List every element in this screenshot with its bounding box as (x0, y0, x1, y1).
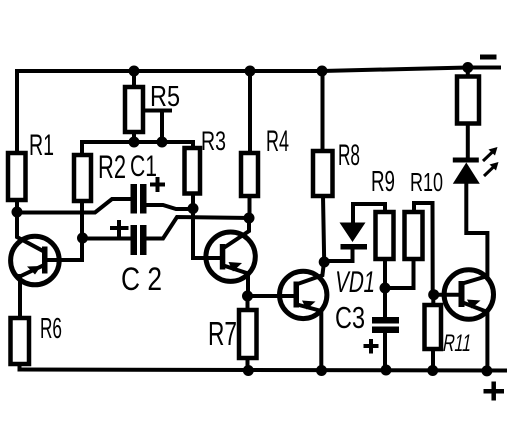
resistor R6 (11, 318, 30, 364)
node R4-C2-Q2 collector junction (244, 213, 255, 224)
wire bias net R2-R5-R3 (82, 142, 193, 155)
LED arrows (483, 147, 499, 176)
resistor R7 (239, 310, 257, 358)
label plus supply (484, 382, 505, 401)
node R1 bottom junction (12, 207, 23, 218)
node Q2 emitter R7 Q3 base (242, 291, 253, 302)
svg-text:C1: C1 (130, 150, 157, 183)
transistor Q2 (206, 218, 255, 296)
node R5 bottom (129, 137, 140, 148)
svg-text:C 2: C 2 (121, 261, 162, 297)
wire R5 wiper tap (143, 111, 170, 143)
wire lamp resistor top lead (466, 68, 470, 77)
wire R5 bottom lead (132, 132, 136, 142)
wire node to Q2 base (193, 209, 220, 259)
transistor Q3 (280, 262, 327, 371)
label C2 plus (110, 220, 129, 237)
node top rail R5 (129, 66, 140, 77)
svg-text:C3: C3 (335, 300, 365, 335)
node top rail R8 (317, 66, 328, 77)
wire C2 right to R4 node (147, 217, 250, 239)
wire R11 leads (431, 295, 435, 370)
wire R8 top lead (321, 71, 325, 151)
wire R2 bottom lead (80, 201, 84, 238)
node top rail R4 (245, 66, 256, 77)
wire bottom rail (20, 370, 506, 371)
node R9-R10-C3 junction (380, 283, 391, 294)
wire R7 leads (246, 296, 250, 371)
node R3-C1-Q2 base junction (188, 203, 199, 214)
wire R10 top bridge to Q4 base rail (414, 203, 433, 295)
capacitor C3 (372, 317, 399, 324)
wire R6 bottom to bottom rail (18, 364, 22, 370)
diode VD1 (324, 223, 367, 262)
wire R10 bottom lead (385, 259, 414, 288)
wire R9 bottom lead (383, 259, 387, 288)
wire C3 top lead (383, 288, 387, 317)
node Q3 emitter bottom rail (316, 365, 327, 376)
node top rail lamp resistor (462, 62, 473, 73)
resistor R10 (405, 212, 423, 259)
svg-text:R8: R8 (338, 139, 360, 172)
resistor R12 (unlabeled, above LED) (457, 77, 479, 124)
svg-text:R4: R4 (266, 125, 289, 158)
resistor R5 (125, 87, 143, 132)
svg-text:R11: R11 (441, 330, 474, 357)
node R10-R11-Q4 base junction (428, 289, 439, 300)
resistor R3 (185, 148, 201, 194)
wire R1 bottom lead (15, 200, 19, 212)
wire resistor to LED (466, 124, 470, 159)
wire C3 bottom lead (383, 333, 387, 370)
resistor R1 (8, 153, 26, 200)
wire C2 left lead (83, 237, 131, 241)
node R5 wiper (157, 137, 168, 148)
wire Q4 base (434, 293, 458, 297)
svg-text:R9: R9 (371, 166, 395, 198)
capacitor C1 (131, 184, 138, 214)
node Q4 emitter bottom rail (481, 365, 492, 376)
resistor R9 (376, 212, 394, 259)
transistor Q1 (11, 212, 82, 285)
label C3 plus (364, 339, 379, 354)
node R7 bottom rail (243, 365, 254, 376)
node R2-C2-Q1 base junction (77, 233, 88, 244)
svg-text:R2: R2 (98, 149, 126, 185)
label minus supply (480, 55, 497, 60)
svg-text:R5: R5 (150, 81, 180, 113)
svg-text:R7: R7 (208, 315, 237, 352)
capacitor C2 (131, 225, 138, 255)
wire R4 bottom lead (248, 196, 252, 218)
wire R3 bottom lead (191, 194, 195, 209)
node R11 bottom rail (427, 365, 438, 376)
wire node to Q3 base (248, 294, 295, 298)
node R8-VD1-Q3 collector junction (319, 257, 330, 268)
resistor R4 (241, 153, 258, 196)
wire Q1 emitter to R6 (18, 276, 22, 318)
LED HL1 (453, 158, 480, 184)
wire R1 to C1 left (17, 199, 131, 213)
wire R4 top lead (248, 71, 252, 153)
svg-text:R6: R6 (40, 313, 62, 345)
wire top rail (17, 68, 499, 72)
svg-text:R3: R3 (201, 126, 226, 156)
wire VD1 anode to R9 top (353, 204, 385, 222)
resistor R8 (313, 151, 333, 196)
transistor Q4 (444, 184, 493, 371)
node C3 bottom rail (381, 365, 392, 376)
wire R8 bottom lead (323, 196, 324, 262)
wire left rail down to R1 (15, 71, 19, 153)
resistor R2 (74, 155, 91, 201)
svg-text:R1: R1 (29, 129, 54, 162)
resistor R11 (425, 305, 442, 349)
svg-text:R10: R10 (410, 167, 443, 197)
svg-text:VD1: VD1 (333, 266, 378, 299)
wire C1 right to R3 node (147, 205, 194, 209)
label C1 plus (150, 177, 165, 192)
wire R5 top lead (132, 71, 136, 87)
